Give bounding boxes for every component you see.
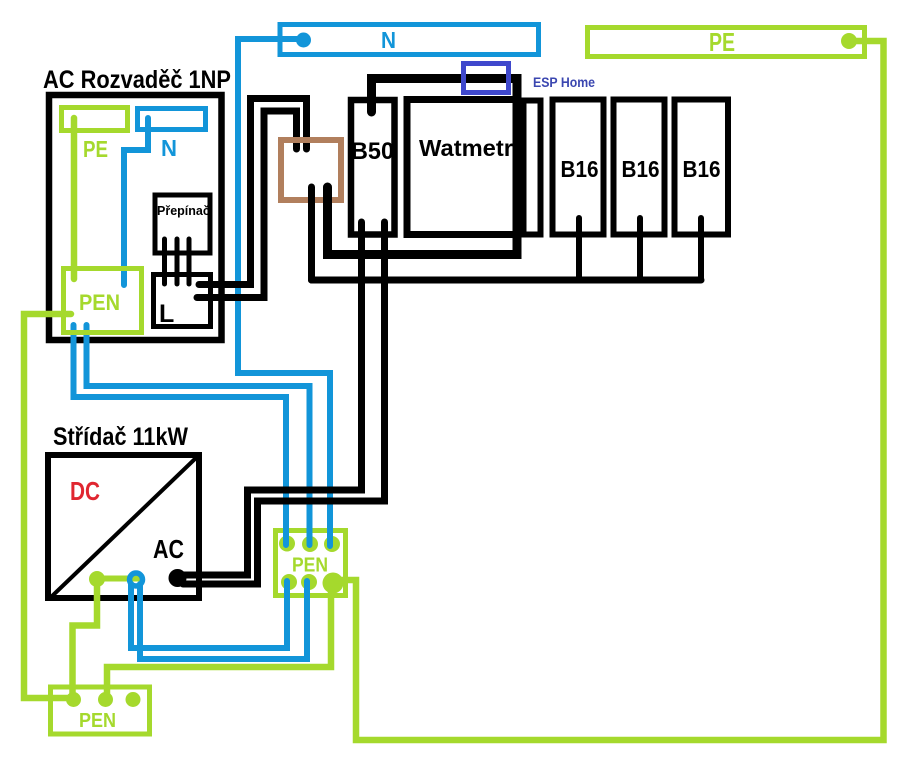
svg-text:B16: B16 xyxy=(561,156,599,182)
busbar N (in AC box) xyxy=(138,109,206,130)
wire L to CT outer (black) xyxy=(199,99,307,285)
svg-text:DC: DC xyxy=(70,476,100,506)
node PE busbar dot xyxy=(841,33,857,49)
node middle PEN bottom dot1 xyxy=(281,574,297,590)
junction box PEN (bottom left) xyxy=(51,687,150,734)
svg-text:PEN: PEN xyxy=(79,710,116,732)
wire PE top busbar right loop to middle PEN dot3 (green) xyxy=(336,41,884,740)
svg-text:N: N xyxy=(381,27,396,53)
svg-text:L: L xyxy=(159,300,174,328)
svg-text:N: N xyxy=(161,135,177,161)
svg-text:B16: B16 xyxy=(622,156,660,182)
DIN module narrow box xyxy=(524,101,541,235)
terminal box L xyxy=(154,275,211,327)
node inverter N (blue ring) xyxy=(130,573,143,586)
switch contact 1 xyxy=(162,239,167,284)
junction box PEN (middle) xyxy=(276,531,346,596)
busbar N (top) xyxy=(280,25,539,55)
switch box Prepinac xyxy=(155,195,210,253)
wire L to CT inner (black) xyxy=(197,111,297,298)
breaker B16 no.2 xyxy=(614,100,665,235)
wire B16 no.2 feed xyxy=(637,218,643,280)
node middle PEN top dot1 xyxy=(279,536,295,552)
wire AC PEN left down to bottom PEN dot1 (green) xyxy=(24,314,73,698)
node middle PEN bottom dot3 (large) xyxy=(323,573,344,594)
enclosure AC Rozvadec 1NP xyxy=(49,95,222,340)
breaker B50 xyxy=(351,100,395,235)
node N busbar dot xyxy=(296,33,311,48)
node inverter L (black dot) xyxy=(169,569,187,587)
meter Watmetr xyxy=(407,100,517,235)
switch contact 3 xyxy=(187,239,192,284)
wire N top busbar to middle PEN dot3 (blue, under black wires) xyxy=(238,39,330,546)
wire PE busbar to PEN (green) xyxy=(71,118,78,279)
phase bus to B16 breakers xyxy=(312,277,702,284)
wire inverter N node to middle PEN bottom dot2 (blue) xyxy=(140,581,307,659)
busbar PEN (in AC box) xyxy=(64,269,142,333)
busbar PE (in AC box) xyxy=(62,108,128,131)
svg-text:PEN: PEN xyxy=(292,555,328,577)
breaker B16 no.1 xyxy=(553,100,604,235)
node bottom PEN dot2 xyxy=(98,692,113,707)
busbar PE (top right) xyxy=(588,28,865,57)
node middle PEN bottom dot2 xyxy=(301,574,317,590)
svg-text:ESP Home: ESP Home xyxy=(533,75,595,90)
CT brown box xyxy=(281,140,341,200)
thick feeder wire CT to B50 (around Watmetr) xyxy=(328,79,518,255)
wire AC PEN to middle PEN dot2 (blue) xyxy=(87,325,310,545)
wire B50 output B to inverter AC node (black, over blue) xyxy=(183,222,385,584)
wire B50 output A to inverter AC node (black, over blue) xyxy=(183,222,362,575)
switch contact 2 xyxy=(175,239,180,284)
svg-text:B16: B16 xyxy=(683,156,721,182)
wire AC PEN to middle PEN dot1 (blue) xyxy=(74,325,287,545)
node middle PEN top dot2 xyxy=(302,536,318,552)
svg-text:PE: PE xyxy=(83,136,108,162)
node middle PEN top dot3 xyxy=(324,536,340,552)
node inverter PE (green dot) xyxy=(89,571,105,587)
node bottom PEN dot1 xyxy=(66,692,81,707)
svg-text:B50: B50 xyxy=(351,138,394,165)
inverter box xyxy=(48,455,199,598)
svg-text:AC: AC xyxy=(153,534,184,564)
inverter diagonal xyxy=(49,456,198,599)
inverter PE-N link (green) xyxy=(97,576,138,582)
svg-text:PEN: PEN xyxy=(79,290,120,315)
wire CT output to phase bus xyxy=(308,187,315,280)
breaker B16 no.3 xyxy=(675,100,729,235)
svg-text:Střídač 11kW: Střídač 11kW xyxy=(53,423,188,451)
svg-text:Watmetr: Watmetr xyxy=(419,135,513,161)
wire inverter N node to middle PEN bottom dot1 (blue) xyxy=(131,581,287,648)
wire N busbar to PEN (blue) xyxy=(124,118,148,285)
node bottom PEN dot3 xyxy=(126,692,141,707)
wire B16 no.3 feed xyxy=(698,218,704,280)
svg-text:PE: PE xyxy=(709,27,735,57)
wire middle PEN dot3 to bottom PEN dot2 (green) xyxy=(107,589,331,696)
wire inverter PE node down to bottom PEN dot1 (green) xyxy=(73,581,98,697)
svg-text:AC Rozvaděč 1NP: AC Rozvaděč 1NP xyxy=(43,66,231,94)
ESP Home sensor box xyxy=(464,64,509,93)
wire B16 no.1 feed xyxy=(576,218,582,280)
svg-text:Přepínač: Přepínač xyxy=(157,204,210,218)
